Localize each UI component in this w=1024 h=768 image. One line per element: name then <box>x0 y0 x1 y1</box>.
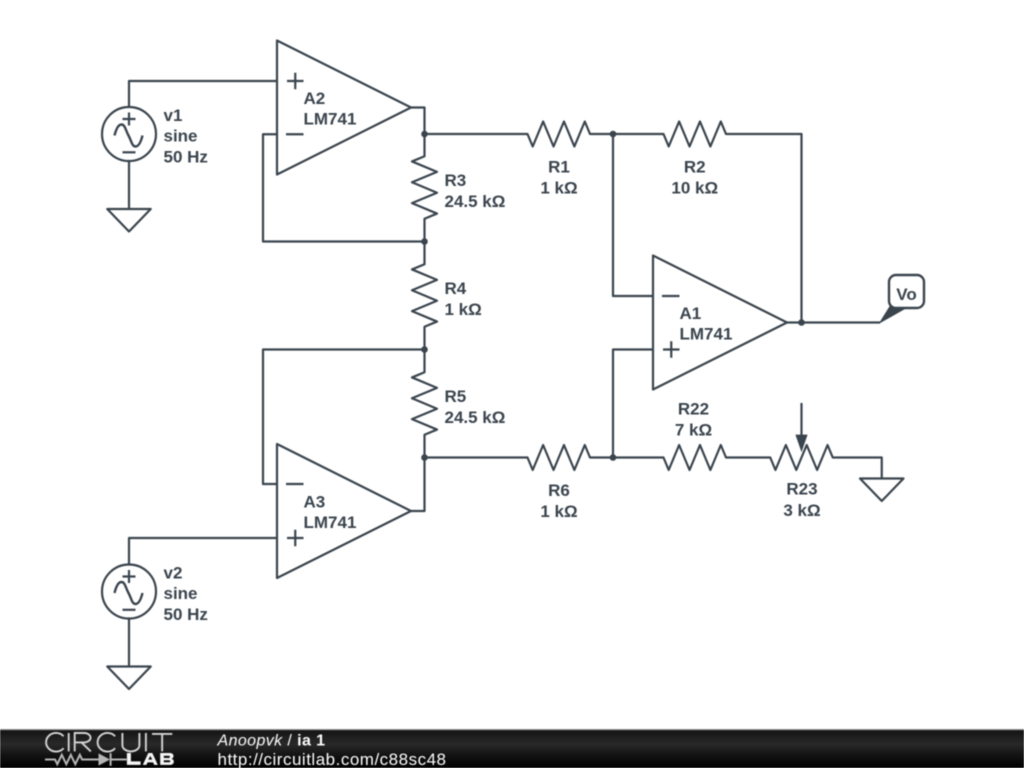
svg-text:R5: R5 <box>445 387 467 406</box>
svg-text:LM741: LM741 <box>680 325 733 344</box>
svg-text:Anoopvk / ia 1: Anoopvk / ia 1 <box>217 733 326 750</box>
svg-text:R23: R23 <box>786 480 817 499</box>
svg-text:R22: R22 <box>678 400 709 419</box>
svg-text:A3: A3 <box>304 493 326 512</box>
svg-text:24.5 kΩ: 24.5 kΩ <box>445 408 506 427</box>
svg-text:24.5 kΩ: 24.5 kΩ <box>445 192 506 211</box>
svg-text:Vo: Vo <box>896 285 916 304</box>
svg-text:R3: R3 <box>445 171 467 190</box>
svg-text:v2: v2 <box>164 564 183 583</box>
svg-text:A1: A1 <box>680 304 702 323</box>
svg-text:R6: R6 <box>548 481 570 500</box>
svg-text:50 Hz: 50 Hz <box>164 147 208 166</box>
svg-text:A2: A2 <box>304 89 326 108</box>
svg-text:R2: R2 <box>684 158 706 177</box>
svg-text:R4: R4 <box>445 279 467 298</box>
svg-text:7 kΩ: 7 kΩ <box>675 420 712 439</box>
svg-text:1 kΩ: 1 kΩ <box>540 502 577 521</box>
svg-text:10 kΩ: 10 kΩ <box>671 179 718 198</box>
svg-text:R1: R1 <box>548 158 570 177</box>
svg-text:3 kΩ: 3 kΩ <box>783 501 820 520</box>
svg-text:50 Hz: 50 Hz <box>164 605 208 624</box>
svg-text:1 kΩ: 1 kΩ <box>540 179 577 198</box>
svg-text:v1: v1 <box>164 106 183 125</box>
svg-text:1 kΩ: 1 kΩ <box>445 300 482 319</box>
svg-text:sine: sine <box>164 127 198 146</box>
svg-text:sine: sine <box>164 584 198 603</box>
svg-text:http://circuitlab.com/c88sc48: http://circuitlab.com/c88sc48 <box>218 750 447 768</box>
svg-text:LM741: LM741 <box>304 110 357 129</box>
svg-text:LM741: LM741 <box>304 513 357 532</box>
